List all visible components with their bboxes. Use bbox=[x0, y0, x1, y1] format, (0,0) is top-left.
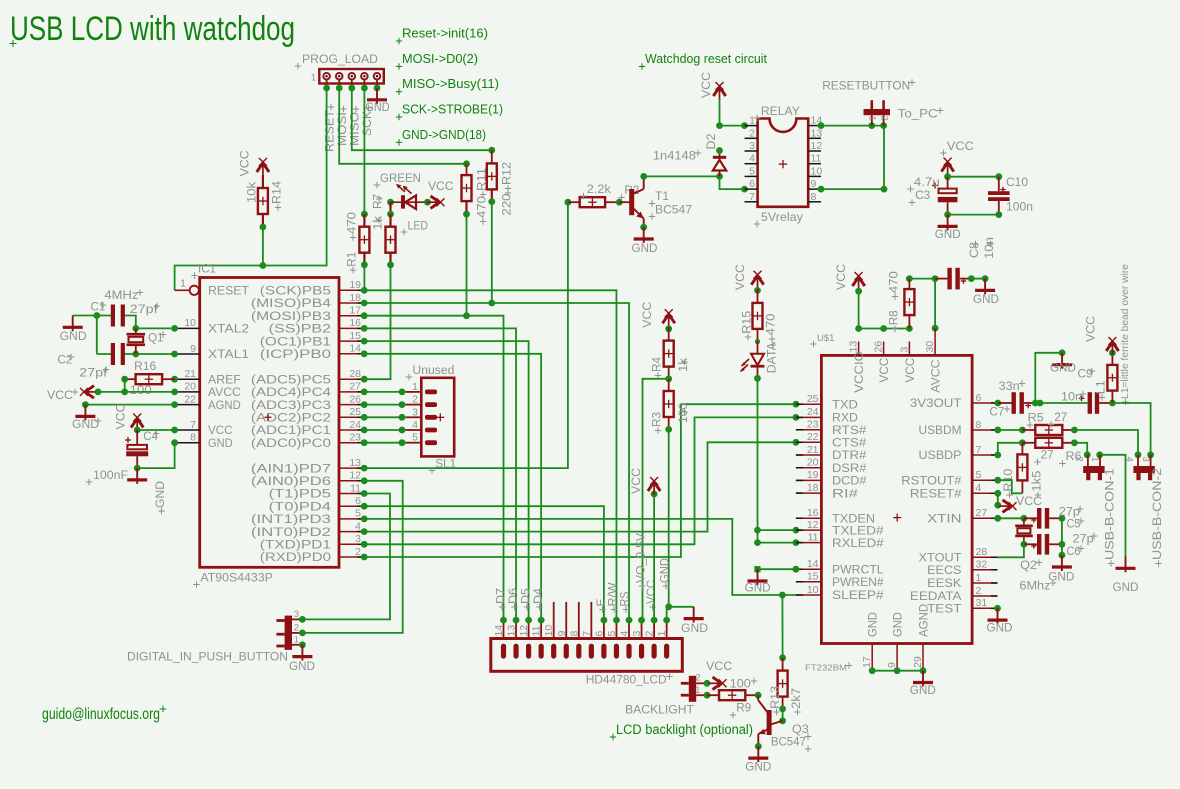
wire L1 node to USB-B-CON-2 pin 3 bbox=[1112, 403, 1154, 458]
wire USB-B-CON-1 pin 1 to ground bbox=[1096, 451, 1125, 556]
ic IC1 pin 17 (MOSI)PB3 bbox=[251, 305, 368, 323]
svg-text:27p: 27p bbox=[1073, 534, 1094, 546]
ic U$1 pin 1 EESK bbox=[927, 572, 997, 590]
svg-text:100nF: 100nF bbox=[93, 468, 128, 482]
svg-text:VCC: VCC bbox=[629, 468, 643, 494]
wire PD1 to FT232 RXD bbox=[364, 414, 799, 544]
caption Watchdog reset circuit bbox=[639, 51, 768, 70]
power VCC above D2 bbox=[699, 72, 726, 129]
svg-text:1: 1 bbox=[1090, 457, 1101, 462]
svg-text:Watchdog reset circuit: Watchdog reset circuit bbox=[645, 51, 767, 66]
resistor R11 470 bbox=[462, 164, 489, 225]
ic U$1 pin 15 PWREN# bbox=[796, 571, 884, 589]
power VCC at C3 bbox=[940, 139, 974, 180]
ground at C1 C2 bbox=[60, 316, 87, 344]
wire R10 to RSTOUT# bbox=[994, 477, 1022, 493]
wire XTAL2 net bbox=[123, 316, 175, 332]
svg-text:(ICP)PB0: (ICP)PB0 bbox=[260, 347, 331, 361]
svg-text:4: 4 bbox=[749, 153, 755, 165]
resistor R10 1k5 bbox=[1001, 443, 1044, 498]
svg-text:8: 8 bbox=[568, 631, 580, 637]
relay pin 4 bbox=[745, 153, 758, 165]
net label D6 (vertical) bbox=[508, 588, 520, 610]
svg-text:12: 12 bbox=[811, 140, 823, 152]
resistor R9 100 bbox=[707, 677, 761, 719]
svg-text:4: 4 bbox=[412, 419, 418, 431]
svg-text:USBDM: USBDM bbox=[919, 423, 962, 437]
svg-text:T1: T1 bbox=[655, 189, 669, 203]
svg-text:AVCC: AVCC bbox=[929, 359, 943, 392]
ic IC1 pin 25 (ADC2)PC2 bbox=[251, 406, 368, 424]
net label RS (vertical) bbox=[620, 591, 632, 613]
svg-text:TXD: TXD bbox=[832, 397, 858, 411]
svg-text:VCC: VCC bbox=[640, 302, 654, 328]
svg-text:GND: GND bbox=[366, 100, 390, 114]
wire IC1 pin 27 to SL1 bbox=[364, 389, 406, 396]
ic IC1 pin 21 AREF bbox=[171, 368, 241, 386]
wire LCD pin 1 to ground bbox=[667, 607, 694, 620]
capacitor C7 33n bbox=[989, 379, 1038, 419]
svg-text:R4: R4 bbox=[650, 357, 664, 372]
wire MOSI net to R11 bbox=[339, 88, 470, 167]
connector SL1 Unused bbox=[406, 363, 457, 474]
relay pin 10 bbox=[808, 165, 822, 177]
wire XTIN to Q2 and C5 bbox=[994, 515, 1027, 522]
caption LCD backlight (optional) bbox=[610, 722, 753, 740]
svg-text:GND: GND bbox=[60, 329, 87, 343]
wire relay pin 9 loop bbox=[818, 126, 888, 193]
ic U$1 pin 23 RTS# bbox=[796, 419, 867, 437]
ground below FT232 bbox=[910, 671, 936, 698]
svg-text:2: 2 bbox=[1074, 457, 1085, 462]
svg-text:MISO->Busy(11): MISO->Busy(11) bbox=[402, 76, 499, 91]
resistor R3 100 bbox=[650, 379, 691, 434]
net note SCK->STROBE(1) bbox=[396, 102, 503, 121]
svg-text:1k: 1k bbox=[676, 357, 690, 372]
svg-text:(ADC0)PC0: (ADC0)PC0 bbox=[251, 436, 331, 450]
svg-text:5: 5 bbox=[355, 508, 361, 520]
svg-text:D5: D5 bbox=[521, 588, 533, 604]
svg-text:IC1: IC1 bbox=[198, 264, 216, 276]
power VCC at AVCC bbox=[47, 386, 101, 402]
svg-text:Q2: Q2 bbox=[1020, 558, 1037, 572]
svg-text:3: 3 bbox=[412, 406, 418, 418]
svg-text:1: 1 bbox=[180, 278, 186, 290]
svg-text:VCC: VCC bbox=[428, 179, 454, 193]
svg-text:C7: C7 bbox=[989, 405, 1004, 419]
capacitor C5 27p bbox=[1024, 506, 1084, 531]
svg-text:GND: GND bbox=[681, 621, 708, 635]
wire C5 C6 to ground bbox=[1059, 518, 1066, 558]
svg-text:C10: C10 bbox=[1006, 175, 1028, 189]
svg-text:2.2k: 2.2k bbox=[587, 182, 612, 196]
svg-text:VCC: VCC bbox=[903, 358, 917, 383]
net label D7 (vertical) bbox=[496, 588, 508, 610]
wire USBDM to R5 bbox=[994, 427, 1025, 434]
svg-text:5Vrelay: 5Vrelay bbox=[761, 210, 804, 224]
ic U$1 pin 28 XTOUT bbox=[919, 546, 998, 564]
svg-text:GND: GND bbox=[745, 581, 771, 595]
capacitor C3 4.7u bbox=[907, 175, 957, 218]
capacitor C6 27p bbox=[1024, 533, 1097, 558]
svg-text:20: 20 bbox=[184, 381, 196, 393]
ic IC1 pin 26 (ADC3)PC3 bbox=[251, 393, 368, 411]
svg-text:18: 18 bbox=[807, 482, 819, 494]
ground at T1 emitter bbox=[632, 227, 658, 255]
ic U$1 pin 21 DTR# bbox=[796, 444, 867, 462]
svg-text:GND: GND bbox=[208, 436, 233, 450]
svg-text:16: 16 bbox=[349, 317, 361, 329]
svg-text:R7: R7 bbox=[371, 194, 385, 209]
ic U$1 pin 6 3V3OUT bbox=[910, 392, 998, 410]
ic U$1 pin 14 PWRCTL bbox=[796, 558, 884, 576]
svg-text:VCC: VCC bbox=[877, 358, 891, 383]
svg-text:25: 25 bbox=[807, 393, 819, 405]
ic IC1 pin 3 (TXD)PD1 bbox=[260, 533, 368, 551]
svg-text:XTAL1: XTAL1 bbox=[208, 347, 249, 361]
ic IC1 pin 14 (ICP)PB0 bbox=[260, 343, 368, 361]
svg-text:12: 12 bbox=[807, 519, 819, 531]
svg-text:Reset->init(16): Reset->init(16) bbox=[402, 26, 488, 41]
capacitor C10 100n bbox=[988, 175, 1033, 218]
net note Reset->init(16) bbox=[396, 26, 488, 45]
svg-text:2: 2 bbox=[294, 623, 299, 634]
svg-text:AT90S4433P: AT90S4433P bbox=[200, 570, 273, 584]
svg-text:100: 100 bbox=[676, 403, 690, 423]
svg-text:R15: R15 bbox=[740, 311, 754, 334]
wire R8 to AVCC and C8 bbox=[909, 275, 938, 341]
resistor R16 100 bbox=[121, 361, 174, 397]
svg-text:1: 1 bbox=[976, 572, 982, 584]
wire PWRCTL to ground bbox=[754, 566, 799, 573]
svg-text:8: 8 bbox=[190, 432, 196, 444]
power VCC above R4 bbox=[640, 302, 675, 333]
svg-text:5: 5 bbox=[606, 631, 618, 637]
resistor R6 27 bbox=[1022, 438, 1081, 467]
capacitor C8 10n bbox=[935, 237, 996, 289]
ground below USB-B-CON-1 pin 1 bbox=[1113, 557, 1139, 595]
svg-text:7: 7 bbox=[190, 419, 196, 431]
svg-text:GND: GND bbox=[891, 612, 905, 637]
power VCC at BACKLIGHT pin 2 bbox=[706, 659, 732, 690]
svg-text:R1: R1 bbox=[345, 252, 359, 267]
ground at C8 bbox=[973, 279, 999, 306]
svg-text:D2: D2 bbox=[706, 134, 718, 150]
svg-text:20: 20 bbox=[807, 457, 819, 469]
ic U$1 pin 8 USBDM bbox=[919, 419, 998, 437]
svg-text:27: 27 bbox=[976, 507, 988, 519]
power VCC at LCD pin 2 bbox=[629, 468, 660, 620]
wire R13 to Q3 collector bbox=[779, 709, 786, 724]
net label R/W (vertical) bbox=[608, 582, 620, 612]
svg-text:6Mhz: 6Mhz bbox=[1019, 579, 1050, 593]
svg-text:6: 6 bbox=[355, 495, 361, 507]
svg-text:10n: 10n bbox=[984, 237, 996, 259]
relay pin 9 bbox=[808, 178, 821, 190]
connector HD44780_LCD pin 8 bbox=[568, 602, 581, 659]
net label D5 (vertical) bbox=[521, 588, 533, 610]
net label D4 (vertical) bbox=[533, 587, 545, 610]
ic IC1 pin 24 (ADC1)PC1 bbox=[251, 419, 368, 437]
svg-text:12: 12 bbox=[349, 470, 361, 482]
wire T1 collector to D2 and relay pin 6 bbox=[644, 173, 748, 193]
svg-text:TEST: TEST bbox=[927, 602, 962, 616]
svg-text:10n: 10n bbox=[1061, 390, 1082, 404]
relay pin 11 bbox=[808, 153, 821, 165]
svg-text:27: 27 bbox=[349, 381, 361, 393]
wire PB2 to LCD D6 bbox=[364, 328, 516, 620]
wire USBDP to R6 bbox=[994, 439, 1025, 458]
svg-text:GND: GND bbox=[1048, 570, 1074, 584]
svg-text:USB-B-CON-2: USB-B-CON-2 bbox=[1150, 468, 1164, 560]
svg-text:24: 24 bbox=[807, 406, 819, 418]
svg-text:4: 4 bbox=[619, 631, 631, 637]
svg-text:3: 3 bbox=[631, 631, 643, 637]
svg-text:VCC: VCC bbox=[238, 150, 252, 176]
ic U$1 pin 11 RXLED# bbox=[796, 531, 884, 549]
ic U$1 pin 4 RESET# bbox=[910, 482, 998, 500]
LED DATA bbox=[741, 341, 779, 381]
svg-text:11: 11 bbox=[811, 153, 822, 165]
ic IC1 pin 10 XTAL2 bbox=[171, 317, 249, 335]
ic U$1 pin 24 RXD bbox=[796, 406, 858, 424]
svg-text:9: 9 bbox=[811, 178, 817, 190]
wire MISO net to R12 bbox=[352, 88, 495, 154]
ground below C3 bbox=[935, 215, 961, 241]
wire relay pin 14 to RESETBUTTON bbox=[818, 122, 887, 129]
svg-text:4MHz: 4MHz bbox=[104, 288, 138, 302]
svg-text:1: 1 bbox=[695, 685, 700, 696]
resistor R13 2k7 bbox=[768, 654, 803, 715]
svg-text:5: 5 bbox=[412, 432, 418, 444]
svg-text:1: 1 bbox=[412, 381, 418, 393]
pin label MOSI (vertical) bbox=[337, 106, 349, 146]
svg-text:RXLED#: RXLED# bbox=[832, 536, 884, 550]
connector HD44780_LCD pin 7 bbox=[581, 602, 594, 659]
svg-text:7: 7 bbox=[581, 631, 593, 637]
svg-text:USBDP: USBDP bbox=[919, 448, 962, 462]
wire C4 to IC1 GND pin bbox=[137, 443, 174, 468]
svg-text:10: 10 bbox=[811, 165, 823, 177]
connector HD44780_LCD pin 12 bbox=[518, 617, 532, 659]
svg-text:2: 2 bbox=[644, 631, 656, 637]
net note MOSI->D0(2) bbox=[396, 51, 478, 70]
ic IC1 pin 11 (T1)PD5 bbox=[269, 482, 368, 500]
power VCC at FT232 top bbox=[834, 264, 865, 295]
wire IC1 pin 24 to SL1 bbox=[364, 427, 406, 434]
svg-text:28: 28 bbox=[976, 546, 988, 558]
svg-text:SL1: SL1 bbox=[435, 457, 456, 471]
ground at push button pin 1 bbox=[289, 645, 315, 673]
transistor T1 BC547 bbox=[619, 173, 692, 231]
ic U$1 pin 25 TXD bbox=[796, 393, 858, 411]
wire R13 to SLEEP row bbox=[781, 595, 783, 658]
ic U$1 pin 19 DCD# bbox=[796, 469, 867, 487]
svg-text:1k: 1k bbox=[371, 215, 385, 230]
relay pin 14 bbox=[808, 115, 822, 127]
wire PB4 to LCD RS bbox=[364, 303, 629, 620]
svg-text:1: 1 bbox=[749, 115, 755, 127]
svg-text:16: 16 bbox=[807, 507, 819, 519]
wire IC1 pin 25 to SL1 bbox=[364, 414, 406, 421]
svg-text:2: 2 bbox=[412, 394, 418, 406]
svg-text:31: 31 bbox=[976, 597, 988, 609]
svg-text:RESET#: RESET# bbox=[910, 487, 962, 501]
wire AGND net bbox=[82, 401, 175, 408]
wire PD3 to FT232 SLEEP row bbox=[364, 519, 796, 598]
svg-text:FT232BM: FT232BM bbox=[805, 664, 847, 673]
wire C7 node to ground and C9 bbox=[1035, 349, 1087, 406]
ic IC1 pin 27 (ADC4)PC4 bbox=[251, 381, 368, 399]
svg-text:4.7u: 4.7u bbox=[914, 175, 940, 189]
svg-text:R14: R14 bbox=[270, 181, 284, 204]
svg-text:9: 9 bbox=[556, 631, 568, 637]
power VCC at IC1 VCC pin bbox=[114, 403, 175, 433]
svg-text:VO_0-5V: VO_0-5V bbox=[636, 533, 648, 583]
svg-text:28: 28 bbox=[349, 368, 361, 380]
pin label SCK (vertical) bbox=[362, 105, 374, 136]
ic IC1 pin 2 (RXD)PD0 bbox=[260, 546, 368, 564]
svg-text:3: 3 bbox=[355, 533, 361, 545]
svg-text:GND: GND bbox=[935, 227, 961, 241]
ic IC1 pin 8 GND bbox=[171, 432, 233, 450]
svg-text:R/W: R/W bbox=[608, 582, 620, 606]
connector HD44780_LCD box bbox=[491, 639, 683, 687]
svg-text:DATA: DATA bbox=[765, 341, 779, 373]
ic U$1 pin 12 TXLED# bbox=[796, 519, 884, 537]
wire 3V3OUT to C7 bbox=[994, 400, 1011, 407]
svg-text:C2: C2 bbox=[58, 355, 73, 367]
svg-text:GND: GND bbox=[660, 558, 672, 583]
wire FT232 ground pins link bbox=[872, 670, 923, 672]
connector HD44780_LCD pin 4 bbox=[619, 617, 633, 659]
wire XTOUT to Q2 bbox=[998, 544, 1024, 557]
svg-text:VCC: VCC bbox=[947, 139, 974, 153]
svg-text:11: 11 bbox=[531, 625, 543, 636]
svg-text:6: 6 bbox=[749, 178, 755, 190]
connector HD44780_LCD pin 14 bbox=[493, 617, 507, 659]
svg-text:R8: R8 bbox=[887, 310, 901, 325]
svg-text:470: 470 bbox=[764, 313, 778, 335]
wire XTAL1 net bbox=[123, 351, 175, 358]
svg-text:32: 32 bbox=[976, 559, 988, 571]
ic IC1 pin 7 VCC bbox=[171, 419, 233, 437]
svg-text:VCC: VCC bbox=[834, 264, 848, 290]
svg-text:26: 26 bbox=[873, 341, 885, 353]
svg-text:8: 8 bbox=[811, 191, 817, 203]
svg-text:R13: R13 bbox=[768, 686, 782, 709]
connector USB-B-CON-2 bbox=[1124, 455, 1165, 567]
svg-text:2: 2 bbox=[976, 585, 982, 597]
ground at TEST pin bbox=[987, 605, 1013, 635]
svg-text:VCC: VCC bbox=[1016, 494, 1042, 508]
svg-text:GND: GND bbox=[866, 612, 880, 637]
wire PD4 to LCD E bbox=[364, 506, 604, 620]
ic IC1 pin 20 AVCC bbox=[171, 381, 241, 399]
svg-text:10k: 10k bbox=[245, 181, 259, 203]
capacitor C2 27pf bbox=[58, 343, 125, 379]
ic U$1 pin 18 RI# bbox=[796, 482, 858, 500]
svg-text:470: 470 bbox=[887, 271, 901, 293]
connector USB-B-CON-1 bbox=[1074, 455, 1117, 567]
wire R1 to IC1 pin 19 bbox=[363, 265, 365, 291]
wire VCC to relay pin 1 bbox=[720, 122, 748, 129]
connector HD44780_LCD pin 13 bbox=[506, 617, 520, 659]
connector PROG_LOAD bbox=[295, 52, 384, 92]
svg-text:GND: GND bbox=[153, 481, 167, 508]
svg-text:RESETBUTTON: RESETBUTTON bbox=[822, 78, 910, 92]
wire IC1 pin 26 to SL1 bbox=[364, 401, 406, 408]
svg-text:100n: 100n bbox=[1006, 200, 1033, 214]
title text bbox=[10, 10, 296, 48]
svg-text:GND: GND bbox=[1050, 361, 1076, 375]
power VCC above L1 bbox=[1084, 316, 1119, 355]
svg-text:9: 9 bbox=[886, 662, 898, 668]
svg-text:12: 12 bbox=[518, 625, 530, 637]
svg-text:13: 13 bbox=[811, 127, 823, 139]
ic IC1 pin 16 (SS)PB2 bbox=[269, 317, 368, 335]
svg-text:C3: C3 bbox=[915, 188, 930, 202]
relay pin 12 bbox=[808, 140, 822, 152]
svg-text:2: 2 bbox=[355, 546, 361, 558]
svg-text:MOSI->D0(2): MOSI->D0(2) bbox=[402, 51, 478, 66]
resistor R2 2.2k bbox=[565, 182, 640, 207]
svg-text:13: 13 bbox=[349, 457, 361, 469]
svg-text:BACKLIGHT: BACKLIGHT bbox=[625, 703, 694, 717]
pin label RESET (vertical) bbox=[325, 104, 337, 152]
net label E (vertical) bbox=[596, 598, 608, 613]
wire R12 to IC1 pin 18 bbox=[488, 202, 495, 307]
wire PB3 to LCD D7 bbox=[364, 316, 503, 620]
ic U$1 pin 5 RSTOUT# bbox=[901, 469, 997, 487]
svg-text:1k5: 1k5 bbox=[1030, 470, 1044, 491]
connector HD44780_LCD pin 5 bbox=[606, 617, 620, 659]
svg-text:18: 18 bbox=[349, 292, 361, 304]
ic U$1 pin 31 TEST bbox=[927, 597, 997, 615]
svg-text:LCD backlight (optional): LCD backlight (optional) bbox=[616, 722, 753, 737]
svg-text:BC547: BC547 bbox=[771, 734, 806, 748]
svg-text:23: 23 bbox=[349, 432, 361, 444]
ground at Q3 emitter bbox=[745, 746, 771, 773]
ic U$1 FT232BM box bbox=[805, 333, 972, 673]
svg-text:4: 4 bbox=[355, 520, 361, 532]
svg-text:6: 6 bbox=[976, 392, 982, 404]
relay pin 2 bbox=[745, 127, 758, 139]
svg-text:LED: LED bbox=[408, 219, 429, 233]
svg-text:HD44780_LCD: HD44780_LCD bbox=[586, 673, 667, 687]
connector HD44780_LCD pin 2 bbox=[644, 617, 658, 659]
svg-text:22: 22 bbox=[807, 431, 819, 443]
svg-text:PROG_LOAD: PROG_LOAD bbox=[302, 52, 378, 66]
connector RESETBUTTON bbox=[822, 78, 943, 125]
svg-text:SLEEP#: SLEEP# bbox=[832, 588, 884, 602]
resistor R14 10k bbox=[245, 175, 284, 227]
wire C1 C2 ground link bbox=[73, 312, 113, 354]
resistor R7 1k bbox=[371, 194, 396, 268]
ic IC1 pin 4 (INT0)PD2 bbox=[251, 520, 368, 538]
svg-text:VCC: VCC bbox=[1084, 316, 1098, 342]
ic U$1 pin 2 EEDATA bbox=[910, 585, 998, 603]
connector HD44780_LCD pin 6 bbox=[593, 617, 607, 659]
LED GREEN bbox=[374, 171, 431, 235]
svg-text:1n4148: 1n4148 bbox=[653, 149, 696, 163]
svg-text:3: 3 bbox=[898, 347, 910, 353]
svg-text:14: 14 bbox=[807, 558, 819, 570]
svg-text:24: 24 bbox=[349, 419, 361, 431]
wire R11 to IC1 pin 17 bbox=[463, 214, 470, 319]
crystal Q1 4MHz bbox=[104, 288, 166, 354]
svg-text:13: 13 bbox=[848, 341, 860, 353]
